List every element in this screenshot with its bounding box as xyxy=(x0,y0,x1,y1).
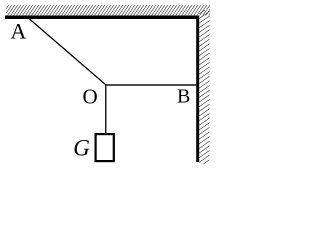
svg-text:B: B xyxy=(177,86,190,108)
ceiling line xyxy=(5,16,199,20)
svg-text:G: G xyxy=(73,135,90,160)
svg-text:A: A xyxy=(11,19,27,44)
wire rope A-O xyxy=(30,19,107,85)
wall line xyxy=(196,16,199,163)
svg-text:O: O xyxy=(83,84,98,108)
wire rope O-B xyxy=(106,84,196,85)
wall hatching xyxy=(199,10,209,164)
weight box G xyxy=(96,134,114,161)
wire rope O to weight xyxy=(105,85,106,134)
ceiling hatching xyxy=(6,5,210,15)
